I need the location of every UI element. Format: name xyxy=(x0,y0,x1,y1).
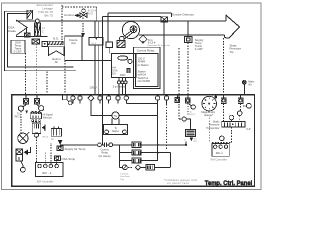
svg-text:Control: Control xyxy=(64,13,74,17)
svg-text:N.O.: N.O. xyxy=(53,37,59,41)
arrow small xyxy=(25,110,28,113)
svg-text:Air: Air xyxy=(55,60,58,64)
valve V1 xyxy=(80,13,87,18)
svg-text:Ovl XFMR: Ovl XFMR xyxy=(138,79,150,83)
fan hub wheel xyxy=(130,26,137,33)
arrow down-right black xyxy=(58,140,63,145)
terminal sq T5 xyxy=(187,95,189,98)
gauge dial X xyxy=(18,133,28,143)
RIC-2 controller box xyxy=(35,162,63,176)
current relay box xyxy=(133,47,160,88)
wire elbow xyxy=(96,7,98,21)
label To RIC-2 xyxy=(15,112,22,118)
duct enclosure inner wall xyxy=(7,13,73,67)
return damper hatched bar xyxy=(47,41,63,45)
fan motor box xyxy=(117,41,125,48)
svg-text:Starter: Starter xyxy=(112,130,119,133)
svg-text:0-2": 0-2" xyxy=(246,127,251,131)
label Static Pressure Tip xyxy=(230,43,242,54)
wire spare dashed xyxy=(46,71,48,94)
circle node mid-right xyxy=(179,118,182,120)
svg-text:Tip: Tip xyxy=(230,50,234,54)
freeze stat box xyxy=(65,36,82,60)
label L1 Z xyxy=(42,26,45,34)
legend supply air temp xyxy=(57,146,63,150)
return air flag xyxy=(49,47,64,56)
svg-text:Temp. Ctrl. Panel: Temp. Ctrl. Panel xyxy=(205,180,253,187)
svg-text:on panel face: on panel face xyxy=(167,181,189,185)
damper blades D1 xyxy=(35,23,38,36)
node Control xyxy=(64,13,74,17)
svg-text:RIC-6: RIC-6 xyxy=(43,136,49,138)
smoke detector box xyxy=(161,17,167,22)
damper actuator circle xyxy=(36,19,40,23)
smoke detector wire upper xyxy=(108,13,171,42)
small box with dot xyxy=(42,41,47,46)
supply duct bottom line xyxy=(139,35,224,38)
wire damper transducer to panel dashed xyxy=(35,44,37,95)
duct flow arrow xyxy=(225,15,240,38)
junction box xyxy=(106,42,113,48)
circle mid xyxy=(237,111,242,116)
main air valve xyxy=(242,80,246,84)
svg-text:Low Limit: Low Limit xyxy=(120,175,130,178)
terminal sq T3 xyxy=(63,95,68,100)
motor starter line xyxy=(90,115,157,117)
svg-text:RIC - 2: RIC - 2 xyxy=(42,171,52,175)
svg-text:NC: NC xyxy=(51,139,55,141)
svg-text:OSA Temp: OSA Temp xyxy=(61,157,75,161)
status current relay xyxy=(98,143,102,147)
magnehelic gauge xyxy=(202,96,217,111)
arrow to freeze stat xyxy=(81,33,85,37)
terminal diamond xyxy=(88,95,94,101)
to-starter box xyxy=(112,119,119,125)
positioner box xyxy=(51,129,61,137)
economizer actuator xyxy=(27,10,33,19)
wire control arrow xyxy=(74,14,78,18)
more interior groups appended below xyxy=(15,95,252,184)
label Smoke Detector xyxy=(172,13,194,17)
static pressure transmitter xyxy=(222,122,245,128)
DDC controller box xyxy=(111,54,136,78)
label OSA Intake xyxy=(8,25,17,33)
svg-text:Intake: Intake xyxy=(8,29,17,33)
circle right of T7 xyxy=(243,105,246,107)
svg-text:E/A Controller: E/A Controller xyxy=(37,179,54,183)
transducer X-box under damper xyxy=(32,39,40,44)
duct enclosure outer wall xyxy=(5,11,76,70)
wire A to gauge dashed xyxy=(20,111,22,133)
duct top line xyxy=(16,20,226,22)
border frame xyxy=(2,3,261,190)
supply temp sensor xyxy=(187,21,189,36)
wire osa-trans to panel dashed xyxy=(25,53,27,94)
svg-text:stat: stat xyxy=(71,41,76,45)
wire smoke box to panel xyxy=(163,22,165,95)
svg-text:R/A Controller: R/A Controller xyxy=(211,157,227,161)
circle above RIC-1 xyxy=(220,136,225,141)
row4 xyxy=(120,166,123,168)
dashed drops right column xyxy=(208,118,210,143)
terminal circles row xyxy=(71,96,75,100)
terminal sq T2 xyxy=(36,95,38,99)
motor circle xyxy=(112,112,119,119)
svg-text:N-5: N-5 xyxy=(88,11,93,15)
diamond CB xyxy=(139,35,147,43)
mixed air box xyxy=(89,37,103,45)
svg-text:Supply Air Temp: Supply Air Temp xyxy=(65,147,86,151)
fan belt xyxy=(123,31,133,39)
RIC-1 controller box xyxy=(212,144,229,157)
svg-text:Selector: Selector xyxy=(43,116,52,119)
circle B xyxy=(37,103,39,107)
duct bottom line left xyxy=(16,35,47,37)
rows with boxes xyxy=(132,142,141,147)
svg-text:to Starter: to Starter xyxy=(138,63,149,67)
wire supply sensor dashed xyxy=(187,43,189,95)
DDC power terminals xyxy=(119,78,126,81)
relay RIC stack xyxy=(32,123,41,133)
fan motor pulley xyxy=(120,36,125,41)
svg-text:Gauge*: Gauge* xyxy=(204,113,213,117)
wire 130V feed pair xyxy=(95,45,98,95)
label 130V xyxy=(89,86,97,90)
svg-text:0-100°: 0-100° xyxy=(195,47,203,51)
hi-signal selector U1 xyxy=(31,112,33,114)
wire freezestat-to-ddc xyxy=(82,59,111,61)
flag triangle xyxy=(42,125,45,129)
terminal sq T4 xyxy=(176,95,178,98)
svg-text:EA: EA xyxy=(112,72,116,75)
svg-text:Smoke Detector: Smoke Detector xyxy=(172,13,194,17)
svg-text:M: M xyxy=(44,164,46,166)
bus3 vertical xyxy=(157,103,159,160)
svg-text:(for status): (for status) xyxy=(99,155,111,158)
smoke detector wire lower / conduit to panel xyxy=(103,17,162,145)
node below T3 xyxy=(67,100,69,102)
wire spare dashed right xyxy=(178,48,180,95)
svg-text:130 V: 130 V xyxy=(89,86,97,90)
svg-text:Connected CB to duct det: Connected CB to duct det xyxy=(147,44,170,47)
label N.O. xyxy=(53,37,59,41)
label N.C. 6-13 xyxy=(147,38,170,47)
note text xyxy=(120,172,130,181)
economizer linkage note xyxy=(37,3,54,17)
arrow left solid xyxy=(24,150,28,155)
wire duct to box pair xyxy=(95,21,98,37)
terminal sq T1 xyxy=(25,95,27,99)
svg-text:Air: Air xyxy=(248,82,251,86)
terminal sq T7 xyxy=(240,95,242,98)
bus2 vertical xyxy=(119,145,121,168)
svg-text:Transmitter: Transmitter xyxy=(206,126,220,130)
node circle under solenoid xyxy=(21,161,23,165)
OSA intake chevron xyxy=(16,20,27,36)
label 6-13 4 xyxy=(88,9,97,16)
solenoid EP-1 xyxy=(16,149,23,155)
wire static tip dashed xyxy=(222,38,224,95)
NC/NO transducer xyxy=(185,130,195,137)
legend OSA temp xyxy=(55,156,61,161)
svg-text:0-100°: 0-100° xyxy=(14,50,22,54)
circle above transmitter xyxy=(229,115,234,120)
OSA temp probe xyxy=(25,28,27,33)
circle RIC-0 xyxy=(191,105,195,109)
OSA temp transmitter box xyxy=(11,40,25,53)
svg-text:Current Relay: Current Relay xyxy=(137,49,155,53)
wire freezestat to panel dashed xyxy=(64,60,66,94)
wire valve down dashed xyxy=(82,18,84,33)
left cluster: circle A xyxy=(23,103,26,107)
svg-text:RIC-1: RIC-1 xyxy=(216,151,224,155)
svg-text:RIC-2: RIC-2 xyxy=(190,114,196,116)
terminal sq T6 xyxy=(223,95,225,98)
svg-text:Blk 75: Blk 75 xyxy=(44,13,53,17)
fan F1 scroll xyxy=(122,22,139,39)
svg-text:DDC: DDC xyxy=(120,73,126,77)
svg-text:Controls: Controls xyxy=(120,172,129,175)
svg-text:TS: TS xyxy=(114,114,118,118)
wire control dashed xyxy=(62,5,97,41)
svg-text:NO: NO xyxy=(194,141,197,143)
